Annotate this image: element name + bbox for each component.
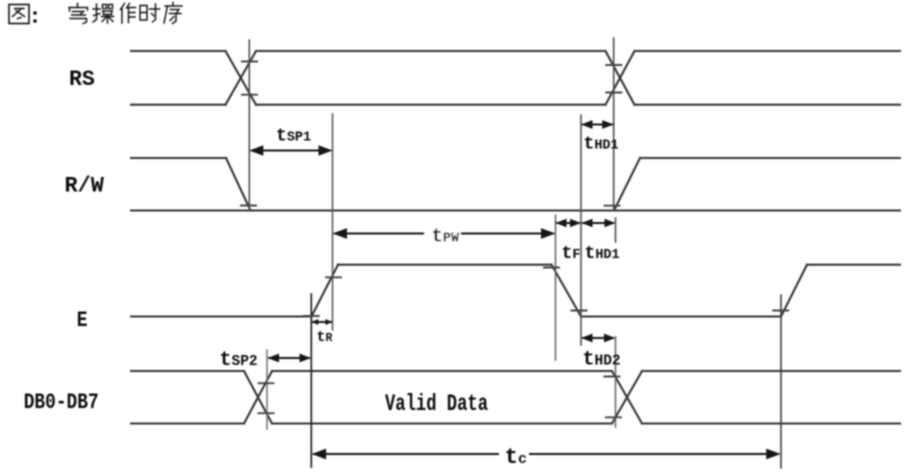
- svg-text:R/W: R/W: [65, 174, 105, 199]
- tick marks (crossing dashes): [241, 62, 788, 418]
- node tick E rise1 bottom: [304, 315, 319, 317]
- wire vertical ref tc left / E rise 1: [310, 294, 312, 467]
- node RS crossover 2: [606, 51, 635, 105]
- node tick DB X1 upper: [259, 382, 274, 384]
- DB0-DB7 waveform: [131, 371, 900, 424]
- wire E low rail 1: [131, 315, 312, 317]
- RS waveform: [131, 51, 900, 105]
- glyph 序: [164, 3, 182, 24]
- node tick E rise2 bottom: [773, 310, 788, 312]
- wire vertical ref tHD2 right / DB crossover 2: [615, 337, 617, 427]
- svg-text:tR: tR: [317, 329, 333, 346]
- wire RS low rail segment 1: [131, 104, 226, 106]
- arrow tHD1 top: [583, 124, 612, 126]
- wire DB bottom rail segment 1: [131, 422, 244, 424]
- wire DB top rail segment 1: [131, 370, 244, 372]
- wire vertical ref tF left: [555, 215, 557, 360]
- wire E high rail 1: [338, 264, 552, 266]
- node tick RS X2 upper: [606, 64, 621, 66]
- wire vertical ref at RS crossover 1 / R-W fall: [248, 40, 250, 210]
- wire DB bottom rail segment 2: [272, 422, 612, 424]
- svg-text:tSP2: tSP2: [220, 349, 258, 372]
- wire R/W falling edge: [226, 158, 251, 211]
- node tick E fall top: [544, 267, 559, 269]
- node tick DB X2 lower: [606, 416, 621, 418]
- svg-text:RS: RS: [69, 67, 95, 92]
- label tPW: [425, 224, 461, 248]
- svg-text:tc: tc: [505, 445, 527, 470]
- wire E rising edge 2: [781, 265, 807, 317]
- node tick RS X1 lower: [242, 94, 257, 96]
- wire vertical ref tHD left: [580, 115, 582, 345]
- wire RS low rail segment 3: [635, 104, 901, 106]
- arrow tHD2: [583, 337, 613, 339]
- wire DB bottom rail segment 3: [642, 422, 900, 424]
- svg-text:tF: tF: [562, 244, 581, 264]
- wire vertical ref tSP2 left: [266, 350, 268, 429]
- wire E high rail 2: [807, 264, 900, 266]
- node DB crossover 1: [244, 371, 272, 424]
- wire vertical ref tSP1 right / tR right: [332, 114, 334, 330]
- wire RS high rail segment 2: [256, 50, 606, 52]
- svg-text:tHD1: tHD1: [585, 244, 620, 264]
- svg-text:Valid Data: Valid Data: [385, 391, 488, 418]
- glyph 作: [121, 4, 136, 24]
- node tick R/W rise bottom: [605, 205, 620, 207]
- arrow tSP1: [252, 150, 330, 152]
- wire R/W low rail full width: [131, 209, 900, 211]
- wire E falling edge: [552, 265, 582, 317]
- node tick E rise1 mid: [326, 276, 341, 278]
- wire vertical ref tHD1b right: [615, 218, 617, 242]
- wire vertical ref RS crossover 2 / R-W rise: [613, 38, 615, 210]
- title 图：写操作时序 (hand-drawn CJK strokes): [9, 3, 182, 24]
- arrow tPW: [335, 233, 553, 235]
- glyph 操: [93, 4, 114, 23]
- node tick RS X2 lower: [606, 92, 621, 94]
- wire R/W rising edge: [614, 158, 640, 211]
- R/W waveform: [131, 158, 900, 211]
- wire DB top rail segment 2: [272, 370, 612, 372]
- node DB crossover 2: [612, 371, 642, 424]
- node tick E fall bottom: [572, 310, 587, 312]
- node tick RS X1 upper: [242, 61, 257, 63]
- wire RS high rail segment 1: [131, 50, 226, 52]
- svg-text:tSP1: tSP1: [276, 127, 311, 147]
- wire E rising edge 1: [312, 265, 339, 317]
- wire E low rail 2: [581, 315, 781, 317]
- glyph 时: [140, 4, 160, 22]
- node tick DB X2 upper: [605, 376, 620, 378]
- wire DB top rail segment 3: [642, 370, 900, 372]
- wire vertical ref tc right / E rise 2: [780, 295, 782, 468]
- arrow tR: [313, 321, 332, 323]
- E waveform: [131, 265, 900, 317]
- wire R/W high rail left: [131, 157, 226, 159]
- arrow tF: [557, 222, 579, 224]
- wire R/W high rail right: [640, 157, 900, 159]
- arrow tc: [314, 453, 498, 455]
- glyph 写: [69, 4, 88, 24]
- svg-text:E: E: [77, 308, 88, 333]
- node RS crossover 1: [226, 51, 257, 105]
- glyph 图: [9, 5, 29, 24]
- wire RS low rail segment 2: [256, 104, 606, 106]
- node tick R/W fall bottom: [241, 205, 256, 207]
- arrow tHD1 mid: [583, 222, 613, 224]
- dimension arrows: [249, 120, 780, 459]
- wire RS high rail segment 3: [635, 50, 901, 52]
- node tick DB X1 lower: [259, 412, 274, 414]
- glyph ：: [33, 11, 37, 23]
- arrow tSP2: [269, 357, 309, 359]
- svg-text:DB0-DB7: DB0-DB7: [24, 390, 99, 415]
